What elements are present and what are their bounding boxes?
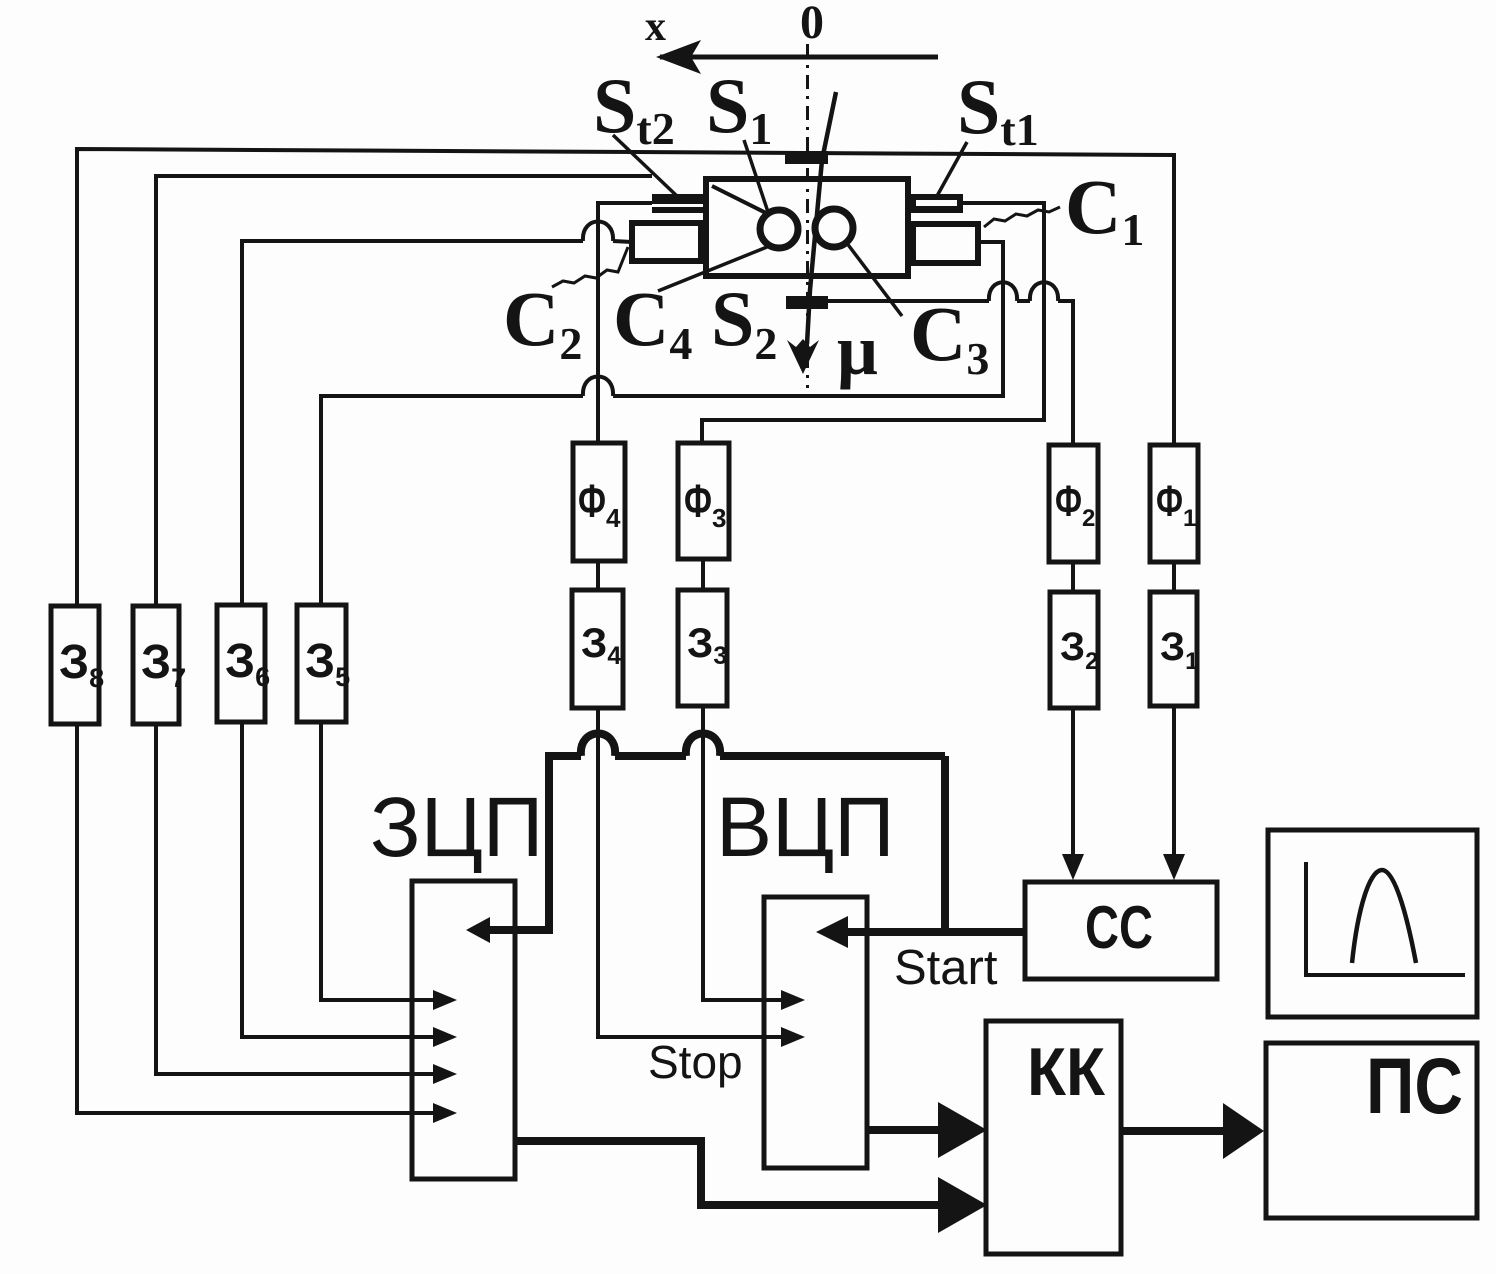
svg-text:3: 3 xyxy=(712,503,726,533)
svg-text:СС: СС xyxy=(1085,894,1153,961)
svg-text:0: 0 xyxy=(800,0,824,49)
svg-text:ВЦП: ВЦП xyxy=(716,780,895,874)
svg-text:Start: Start xyxy=(894,941,998,995)
svg-text:2: 2 xyxy=(1082,505,1095,532)
svg-text:Ф: Ф xyxy=(684,475,712,527)
svg-text:Ф: Ф xyxy=(1156,477,1183,526)
svg-text:Ф: Ф xyxy=(1055,477,1082,526)
svg-text:КК: КК xyxy=(1027,1034,1105,1110)
svg-text:4: 4 xyxy=(606,503,621,533)
svg-text:ПС: ПС xyxy=(1366,1041,1463,1130)
svg-text:Ф: Ф xyxy=(578,475,606,527)
svg-text:μ: μ xyxy=(837,310,878,390)
svg-text:x: x xyxy=(645,4,666,50)
svg-text:Stop: Stop xyxy=(648,1036,743,1088)
svg-text:ЗЦП: ЗЦП xyxy=(370,780,543,874)
svg-text:1: 1 xyxy=(1183,505,1196,532)
